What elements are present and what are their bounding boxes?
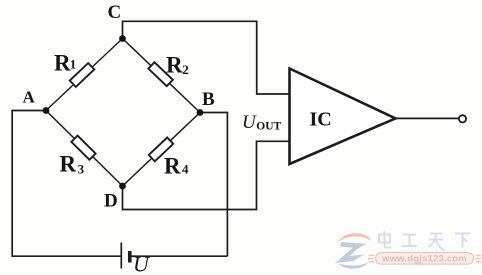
svg-text:2: 2 <box>182 62 189 77</box>
svg-text:C: C <box>108 2 122 23</box>
svg-text:R: R <box>60 152 77 177</box>
svg-text:1: 1 <box>70 57 77 72</box>
svg-text:4: 4 <box>182 162 189 177</box>
svg-text:B: B <box>202 89 215 110</box>
svg-text:IC: IC <box>310 109 332 131</box>
svg-text:U: U <box>242 112 257 133</box>
svg-text:3: 3 <box>78 162 85 177</box>
svg-text:R: R <box>166 53 183 78</box>
svg-text:D: D <box>104 191 118 212</box>
svg-text:www.dgjs123.com: www.dgjs123.com <box>381 254 467 265</box>
svg-text:U: U <box>133 251 151 275</box>
svg-text:A: A <box>23 88 36 107</box>
svg-text:OUT: OUT <box>256 121 281 133</box>
svg-text:R: R <box>164 154 181 179</box>
svg-text:R: R <box>54 51 71 76</box>
